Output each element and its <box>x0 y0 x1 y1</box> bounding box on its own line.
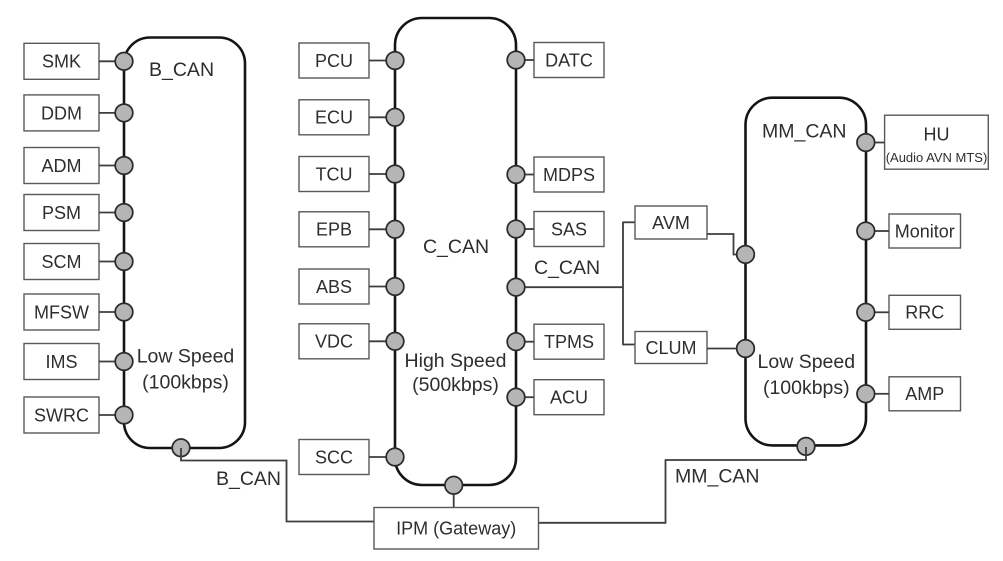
svg-text:DDM: DDM <box>41 103 82 123</box>
svg-text:Monitor: Monitor <box>895 221 955 241</box>
wire CLUM to MM_CAN <box>707 348 737 350</box>
svg-text:RRC: RRC <box>905 303 944 323</box>
svg-text:TPMS: TPMS <box>544 332 594 352</box>
module IPM Gateway <box>374 508 539 550</box>
node B_CAN DDM junction <box>115 104 133 122</box>
bus B_CAN loop <box>124 38 245 449</box>
node C_CAN MDPS junction <box>507 166 525 184</box>
node C_CAN VDC junction <box>386 333 404 351</box>
module VDC <box>299 324 369 359</box>
module SCM <box>24 244 99 280</box>
wire C_CAN to IPM <box>453 493 455 508</box>
bus C_CAN loop <box>395 18 516 485</box>
wire PSM to B_CAN <box>99 212 117 214</box>
svg-text:VDC: VDC <box>315 332 353 352</box>
module TCU <box>299 157 369 192</box>
node C_CAN TCU junction <box>386 165 404 183</box>
svg-text:Low Speed: Low Speed <box>137 346 235 368</box>
node C_CAN EPB junction <box>386 221 404 239</box>
module ADM <box>24 148 99 184</box>
node MM_CAN RRC junction <box>857 304 875 322</box>
svg-text:IPM (Gateway): IPM (Gateway) <box>396 519 516 539</box>
module EPB <box>299 212 369 247</box>
node C_CAN SAS junction <box>507 220 525 238</box>
svg-text:SCC: SCC <box>315 447 353 467</box>
svg-text:SMK: SMK <box>42 52 81 72</box>
node C_CAN bottom junction <box>445 477 463 495</box>
wire HU to MM_CAN <box>875 142 885 144</box>
node MM_CAN bottom junction <box>797 438 815 456</box>
wire ADM to B_CAN <box>99 165 117 167</box>
svg-text:ABS: ABS <box>316 277 352 297</box>
svg-text:DATC: DATC <box>545 50 593 70</box>
svg-text:CLUM: CLUM <box>645 338 696 358</box>
svg-text:ACU: ACU <box>550 388 588 408</box>
wire DDM to B_CAN <box>99 112 117 114</box>
wire MFSW to B_CAN <box>99 311 117 313</box>
wire branch to AVM <box>623 221 635 223</box>
node B_CAN SMK junction <box>115 53 133 71</box>
svg-text:High Speed: High Speed <box>405 350 507 372</box>
wire RRC to MM_CAN <box>875 311 890 313</box>
module SWRC <box>24 397 99 433</box>
module MDPS <box>534 157 604 192</box>
module CLUM <box>635 332 707 364</box>
node B_CAN MFSW junction <box>115 303 133 321</box>
module DATC <box>534 43 604 78</box>
node B_CAN SWRC junction <box>115 406 133 424</box>
wire Monitor to MM_CAN <box>875 230 890 232</box>
svg-text:TCU: TCU <box>316 164 353 184</box>
node MM_CAN Monitor junction <box>857 222 875 240</box>
module IMS <box>24 344 99 380</box>
module DDM <box>24 95 99 131</box>
node B_CAN bottom junction <box>172 439 190 457</box>
svg-text:B_CAN: B_CAN <box>216 468 281 490</box>
wire TCU to C_CAN <box>369 173 388 175</box>
wire SWRC to B_CAN <box>99 414 117 416</box>
wire PCU to C_CAN <box>369 60 388 62</box>
module HU <box>885 115 989 169</box>
module SAS <box>534 212 604 247</box>
wire SMK to B_CAN <box>99 60 117 62</box>
wire AMP to MM_CAN <box>875 393 890 395</box>
svg-text:ECU: ECU <box>315 108 353 128</box>
svg-text:AVM: AVM <box>652 213 690 233</box>
svg-text:B_CAN: B_CAN <box>149 59 214 81</box>
module TPMS <box>534 324 604 359</box>
svg-text:MM_CAN: MM_CAN <box>675 466 760 488</box>
wire C_CAN branch trunk <box>525 286 623 288</box>
module SMK <box>24 43 99 79</box>
node C_CAN SCC junction <box>386 448 404 466</box>
module PCU <box>299 43 369 78</box>
node C_CAN ACU junction <box>507 388 525 406</box>
node C_CAN branch junction <box>507 278 525 296</box>
node C_CAN ABS junction <box>386 278 404 296</box>
wire B_CAN to IPM <box>181 448 374 522</box>
svg-text:(500kbps): (500kbps) <box>412 374 499 396</box>
module Monitor <box>889 214 961 248</box>
svg-text:(100kbps): (100kbps) <box>142 372 229 394</box>
bus MM_CAN loop <box>746 98 867 446</box>
wire TPMS to C_CAN <box>523 341 534 343</box>
wire VDC to C_CAN <box>369 340 388 342</box>
module MFSW <box>24 294 99 330</box>
node B_CAN IMS junction <box>115 353 133 371</box>
node C_CAN DATC junction <box>507 51 525 69</box>
node MM_CAN AVM junction <box>737 246 755 264</box>
wire AVM to MM_CAN <box>707 234 738 255</box>
node B_CAN PSM junction <box>115 204 133 222</box>
svg-text:(Audio AVN MTS): (Audio AVN MTS) <box>886 150 988 165</box>
svg-text:SCM: SCM <box>42 252 82 272</box>
svg-text:EPB: EPB <box>316 220 352 240</box>
wire branch to CLUM <box>623 344 635 346</box>
svg-text:SAS: SAS <box>551 219 587 239</box>
module ABS <box>299 269 369 304</box>
svg-text:MM_CAN: MM_CAN <box>762 121 847 143</box>
wire C_CAN branch vertical <box>622 222 624 346</box>
module PSM <box>24 195 99 231</box>
module AVM <box>635 206 707 239</box>
wire ACU to C_CAN <box>523 396 534 398</box>
svg-text:ADM: ADM <box>42 156 82 176</box>
wire ECU to C_CAN <box>369 116 388 118</box>
wire IMS to B_CAN <box>99 361 117 363</box>
svg-text:Low Speed: Low Speed <box>758 351 856 373</box>
svg-text:SWRC: SWRC <box>34 405 89 425</box>
module SCC <box>299 440 369 475</box>
wire MM_CAN to IPM <box>539 447 807 523</box>
wire SCC to C_CAN <box>369 456 388 458</box>
svg-text:PCU: PCU <box>315 51 353 71</box>
wire SAS to C_CAN <box>523 228 534 230</box>
svg-text:MDPS: MDPS <box>543 165 595 185</box>
wire ABS to C_CAN <box>369 286 388 288</box>
node C_CAN TPMS junction <box>507 333 525 351</box>
node B_CAN SCM junction <box>115 253 133 271</box>
svg-text:C_CAN: C_CAN <box>423 236 489 258</box>
node MM_CAN HU junction <box>857 134 875 152</box>
wire MDPS to C_CAN <box>523 174 534 176</box>
node MM_CAN CLUM junction <box>737 340 755 358</box>
module ACU <box>534 380 604 415</box>
svg-text:PSM: PSM <box>42 203 81 223</box>
module RRC <box>889 295 961 329</box>
svg-text:C_CAN: C_CAN <box>534 257 600 279</box>
wire SCM to B_CAN <box>99 261 117 263</box>
wire DATC to C_CAN <box>523 59 534 61</box>
wire EPB to C_CAN <box>369 228 388 230</box>
node C_CAN ECU junction <box>386 109 404 127</box>
node B_CAN ADM junction <box>115 157 133 175</box>
svg-text:MFSW: MFSW <box>34 302 89 322</box>
module AMP <box>889 377 961 411</box>
module ECU <box>299 100 369 135</box>
svg-text:(100kbps): (100kbps) <box>763 377 850 399</box>
svg-text:AMP: AMP <box>905 384 944 404</box>
svg-text:HU: HU <box>924 125 950 145</box>
node MM_CAN AMP junction <box>857 385 875 403</box>
node C_CAN PCU junction <box>386 52 404 70</box>
svg-text:IMS: IMS <box>45 352 77 372</box>
